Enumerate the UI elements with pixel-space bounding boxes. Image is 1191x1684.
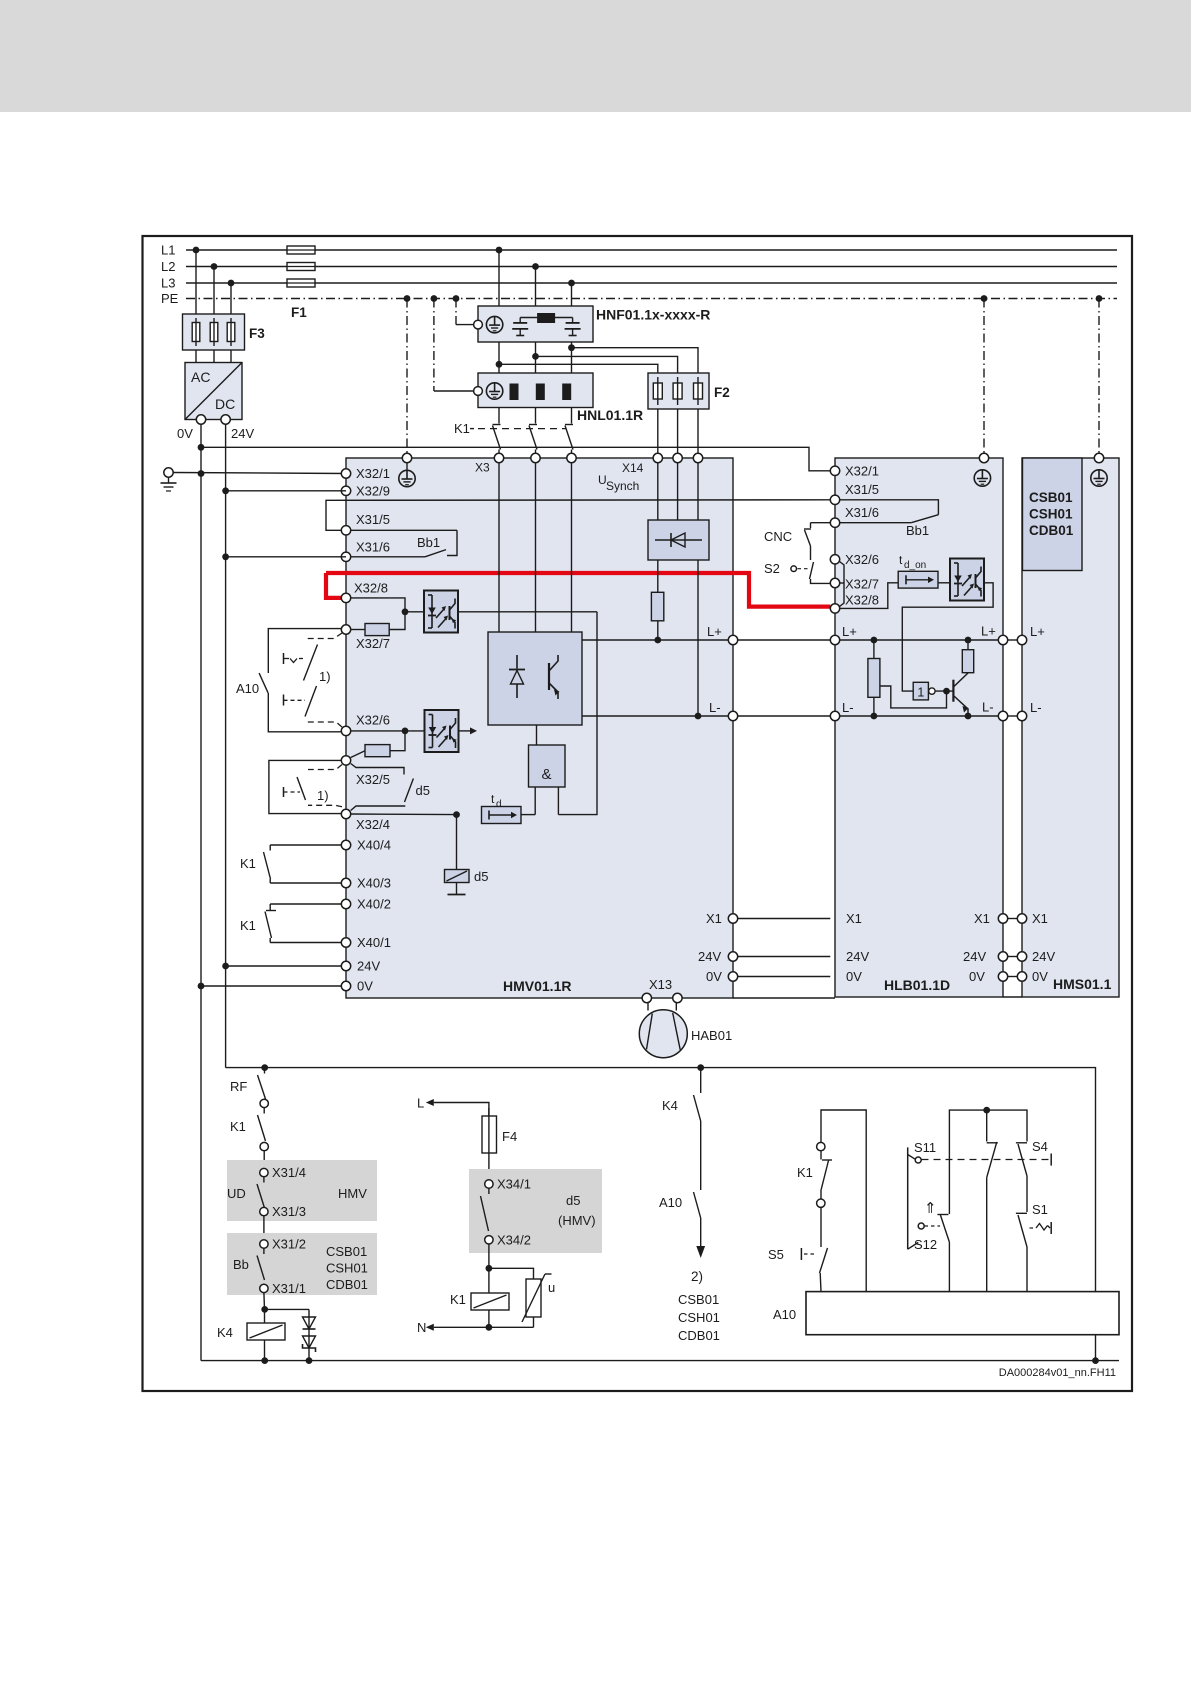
- svg-text:d_on: d_on: [904, 560, 926, 571]
- svg-text:Bb1: Bb1: [417, 535, 440, 550]
- svg-text:A10: A10: [659, 1195, 682, 1210]
- svg-text:24V: 24V: [963, 949, 986, 964]
- svg-text:X40/2: X40/2: [357, 897, 391, 912]
- svg-text:X32/9: X32/9: [356, 483, 390, 498]
- svg-text:L+: L+: [1030, 624, 1045, 639]
- svg-text:HLB01.1D: HLB01.1D: [884, 977, 950, 993]
- svg-text:S2: S2: [764, 561, 780, 576]
- svg-text:X1: X1: [846, 911, 862, 926]
- svg-text:S4: S4: [1032, 1139, 1048, 1154]
- svg-text:X3: X3: [475, 461, 490, 475]
- svg-text:RF: RF: [230, 1079, 247, 1094]
- svg-text:HAB01: HAB01: [691, 1028, 732, 1043]
- svg-text:A10: A10: [236, 681, 259, 696]
- svg-text:⇑: ⇑: [924, 1200, 937, 1217]
- svg-text:X40/1: X40/1: [357, 935, 391, 950]
- svg-text:F1: F1: [291, 305, 307, 320]
- svg-text:L: L: [417, 1096, 424, 1111]
- svg-text:CSH01: CSH01: [678, 1310, 720, 1325]
- svg-text:0V: 0V: [846, 969, 862, 984]
- svg-text:X31/1: X31/1: [272, 1281, 306, 1296]
- svg-text:S1: S1: [1032, 1202, 1048, 1217]
- svg-text:X32/5: X32/5: [356, 772, 390, 787]
- svg-text:d5: d5: [474, 869, 488, 884]
- svg-text:d5: d5: [566, 1193, 580, 1208]
- svg-text:d: d: [496, 799, 502, 810]
- svg-text:0V: 0V: [1032, 969, 1048, 984]
- svg-text:DA000284v01_nn.FH11: DA000284v01_nn.FH11: [999, 1367, 1116, 1379]
- svg-text:CDB01: CDB01: [326, 1277, 368, 1292]
- svg-text:L+: L+: [707, 624, 722, 639]
- svg-text:CSB01: CSB01: [678, 1292, 719, 1307]
- svg-text:CSH01: CSH01: [326, 1261, 368, 1276]
- svg-text:X32/4: X32/4: [356, 817, 390, 832]
- svg-text:X31/5: X31/5: [845, 482, 879, 497]
- svg-text:24V: 24V: [1032, 949, 1055, 964]
- svg-text:X31/3: X31/3: [272, 1204, 306, 1219]
- svg-text:0V: 0V: [969, 969, 985, 984]
- svg-text:CDB01: CDB01: [678, 1328, 720, 1343]
- svg-text:X32/8: X32/8: [354, 581, 388, 596]
- svg-text:L-: L-: [982, 700, 994, 715]
- svg-text:L2: L2: [161, 259, 175, 274]
- svg-text:HMV: HMV: [338, 1186, 367, 1201]
- svg-text:X31/6: X31/6: [356, 539, 390, 554]
- svg-text:X32/1: X32/1: [356, 466, 390, 481]
- svg-text:CSH01: CSH01: [1029, 507, 1073, 522]
- svg-text:CDB01: CDB01: [1029, 523, 1074, 538]
- svg-text:L3: L3: [161, 276, 175, 291]
- svg-text:HNL01.1R: HNL01.1R: [577, 407, 643, 423]
- svg-text:CNC: CNC: [764, 529, 792, 544]
- svg-text:24V: 24V: [357, 959, 380, 974]
- svg-text:K1: K1: [240, 856, 256, 871]
- svg-text:u: u: [548, 1280, 555, 1295]
- svg-text:X1: X1: [1032, 911, 1048, 926]
- svg-text:A10: A10: [773, 1307, 796, 1322]
- svg-text:1): 1): [317, 788, 329, 803]
- svg-text:Bb: Bb: [233, 1257, 249, 1272]
- svg-text:0V: 0V: [706, 969, 722, 984]
- svg-text:K1: K1: [230, 1119, 246, 1134]
- svg-text:24V: 24V: [231, 426, 254, 441]
- svg-text:L1: L1: [161, 243, 175, 258]
- svg-text:X40/4: X40/4: [357, 838, 391, 853]
- svg-text:24V: 24V: [846, 949, 869, 964]
- svg-text:0V: 0V: [357, 979, 373, 994]
- svg-text:0V: 0V: [177, 426, 193, 441]
- svg-text:K4: K4: [662, 1098, 678, 1113]
- svg-text:F3: F3: [249, 326, 265, 341]
- svg-text:S11: S11: [914, 1140, 936, 1155]
- svg-text:L+: L+: [842, 624, 857, 639]
- svg-text:24V: 24V: [698, 949, 721, 964]
- svg-text:HNF01.1x-xxxx-R: HNF01.1x-xxxx-R: [596, 307, 710, 323]
- svg-text:S5: S5: [768, 1247, 784, 1262]
- svg-text:L+: L+: [981, 624, 996, 639]
- svg-text:L-: L-: [709, 700, 721, 715]
- svg-text:X31/6: X31/6: [845, 505, 879, 520]
- svg-text:K1: K1: [797, 1165, 813, 1180]
- svg-text:L-: L-: [1030, 700, 1042, 715]
- svg-text:L-: L-: [842, 700, 854, 715]
- svg-text:X31/4: X31/4: [272, 1165, 306, 1180]
- svg-text:X31/5: X31/5: [356, 512, 390, 527]
- svg-text:HMV01.1R: HMV01.1R: [503, 978, 571, 994]
- svg-text:X1: X1: [974, 911, 990, 926]
- svg-text:X1: X1: [706, 911, 722, 926]
- svg-text:Bb1: Bb1: [906, 523, 929, 538]
- svg-text:F2: F2: [714, 385, 730, 400]
- svg-text:X32/8: X32/8: [845, 593, 879, 608]
- svg-text:X34/2: X34/2: [497, 1233, 531, 1248]
- svg-text:AC: AC: [191, 369, 210, 385]
- svg-text:X32/7: X32/7: [845, 577, 879, 592]
- svg-text:d5: d5: [416, 783, 430, 798]
- svg-text:UD: UD: [227, 1186, 246, 1201]
- svg-text:X40/3: X40/3: [357, 876, 391, 891]
- svg-text:2): 2): [691, 1269, 703, 1284]
- svg-text:X32/6: X32/6: [845, 552, 879, 567]
- svg-text:CSB01: CSB01: [1029, 490, 1073, 505]
- svg-text:X31/2: X31/2: [272, 1237, 306, 1252]
- svg-text:1): 1): [319, 669, 331, 684]
- svg-text:S12: S12: [914, 1237, 937, 1252]
- svg-text:CSB01: CSB01: [326, 1244, 367, 1259]
- svg-text:X32/1: X32/1: [845, 463, 879, 478]
- svg-text:DC: DC: [215, 396, 235, 412]
- svg-text:HMS01.1: HMS01.1: [1053, 976, 1112, 992]
- svg-text:X13: X13: [649, 977, 672, 992]
- svg-text:K4: K4: [217, 1325, 233, 1340]
- svg-text:1: 1: [917, 686, 924, 700]
- svg-text:X14: X14: [622, 461, 644, 475]
- svg-text:F4: F4: [502, 1129, 517, 1144]
- svg-text:PE: PE: [161, 291, 179, 306]
- svg-text:N: N: [417, 1320, 426, 1335]
- svg-text:&: &: [541, 766, 551, 783]
- svg-text:K1: K1: [450, 1292, 466, 1307]
- svg-text:K1: K1: [454, 421, 470, 436]
- svg-text:X32/6: X32/6: [356, 713, 390, 728]
- svg-text:K1: K1: [240, 918, 256, 933]
- svg-text:Synch: Synch: [606, 479, 639, 493]
- svg-text:(HMV): (HMV): [558, 1213, 596, 1228]
- svg-text:X34/1: X34/1: [497, 1177, 531, 1192]
- svg-text:X32/7: X32/7: [356, 636, 390, 651]
